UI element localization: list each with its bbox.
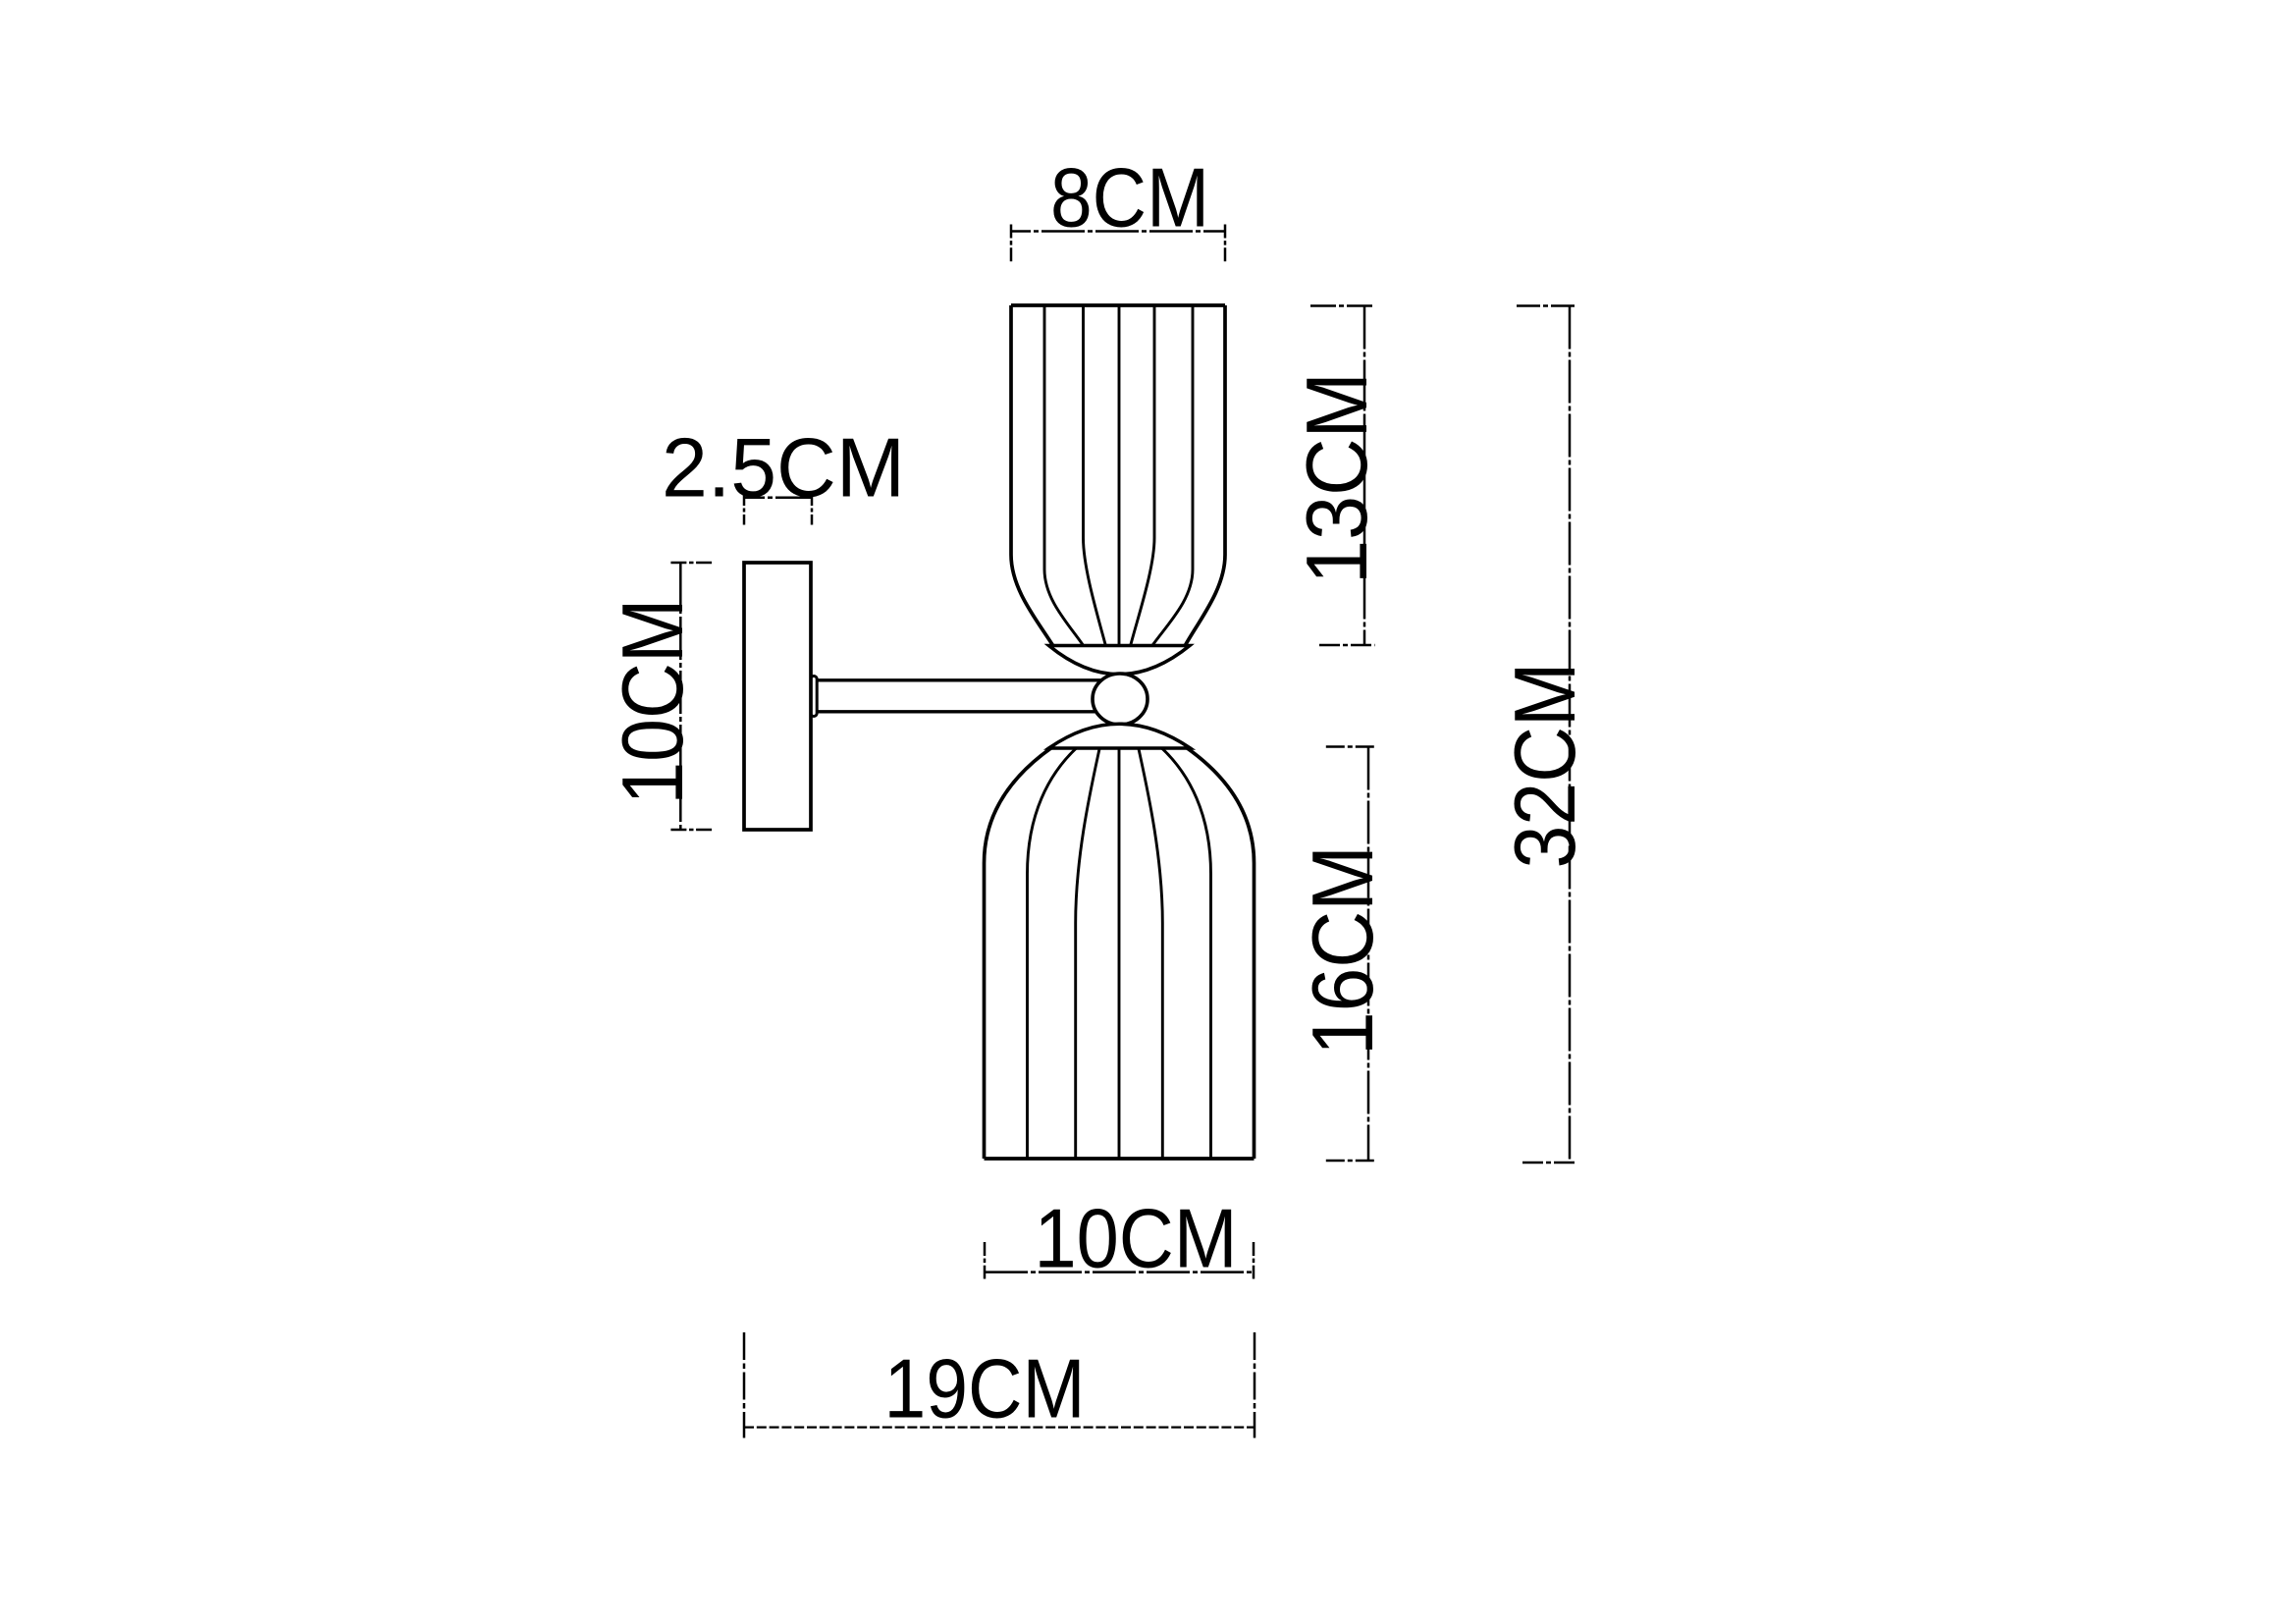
svg-text:10CM: 10CM xyxy=(604,599,701,805)
dome outer right xyxy=(1186,747,1255,1159)
dimension 16CM (lower shade height) xyxy=(1326,747,1376,1162)
dome flute left inner xyxy=(1076,747,1100,1160)
dimension 19CM (total depth) xyxy=(744,1332,1255,1438)
svg-text:16CM: 16CM xyxy=(1294,845,1391,1056)
arm mount capsule on wall plate xyxy=(811,677,817,717)
finial cap on lower shade xyxy=(1049,724,1191,748)
dimension 8CM (top width) xyxy=(1011,225,1225,262)
flute line right outer xyxy=(1185,305,1225,646)
dimension 13CM (upper shade height) xyxy=(1310,306,1375,646)
svg-text:32CM: 32CM xyxy=(1496,663,1593,869)
svg-text:10CM: 10CM xyxy=(1035,1193,1238,1286)
flute line left inner xyxy=(1084,305,1106,646)
dome flute left mid xyxy=(1028,747,1079,1160)
dome outer left xyxy=(985,747,1053,1159)
dimension 2.5CM (plate thickness) xyxy=(744,495,812,525)
dome flute right mid xyxy=(1160,747,1211,1160)
flute line left outer xyxy=(1011,305,1053,646)
dimension 10CM (plate height, left) xyxy=(670,563,712,830)
top rim of upper shade xyxy=(1011,303,1225,307)
dome flute center xyxy=(1118,749,1121,1160)
flute line right inner xyxy=(1131,305,1155,646)
dome flute right inner xyxy=(1139,747,1163,1160)
svg-text:2.5CM: 2.5CM xyxy=(662,422,905,515)
svg-text:13CM: 13CM xyxy=(1288,372,1385,584)
upper glass shade (fluted cup, 8CM wide, 13CM tall) xyxy=(1011,305,1225,646)
lower glass shade (fluted dome, 10CM wide, 16CM tall) xyxy=(985,747,1255,1160)
dome bottom edge xyxy=(985,1157,1255,1161)
dimension 32CM (total height) xyxy=(1517,306,1577,1164)
flute line right mid xyxy=(1152,305,1194,646)
svg-text:19CM: 19CM xyxy=(884,1343,1086,1436)
saucer below upper shade xyxy=(1049,646,1191,675)
flute line left mid xyxy=(1044,305,1084,646)
arm (horizontal bracket tube) xyxy=(817,680,1103,712)
dimension 10CM (lower shade width) xyxy=(985,1242,1254,1279)
flute line center xyxy=(1118,305,1121,646)
wall plate xyxy=(744,563,811,830)
svg-text:8CM: 8CM xyxy=(1050,152,1209,245)
ball joint xyxy=(1093,674,1148,725)
